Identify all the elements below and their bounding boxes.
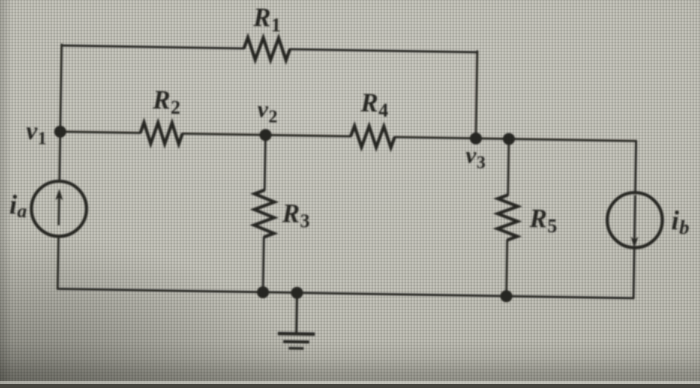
wire R5 down to bottom rail [505, 240, 508, 296]
svg-text:v2: v2 [257, 97, 278, 126]
wire top rail left segment [62, 46, 244, 49]
junction dot R3 at bottom rail [257, 286, 269, 298]
junction dot ground tap at bottom rail [291, 287, 303, 299]
svg-text:ia: ia [9, 189, 28, 222]
wire right rail: middle rail down to source ib [634, 141, 637, 193]
svg-text:R4: R4 [359, 88, 388, 121]
current source ib (circle) [607, 192, 663, 248]
wire left rail: v1 down to source ia [58, 132, 61, 182]
node v1 junction dot [54, 126, 66, 138]
current source ib arrow (down) [633, 195, 636, 241]
svg-text:ib: ib [671, 205, 690, 239]
svg-text:v3: v3 [465, 143, 486, 172]
svg-text:R5: R5 [528, 204, 557, 237]
wire middle rail: v1 to R2 [60, 132, 140, 133]
resistor R1 [244, 37, 290, 60]
junction dot right of v3 (R5 branch) [503, 133, 515, 145]
resistor R3 [254, 190, 275, 237]
junction dot R5 at bottom rail [500, 290, 512, 302]
wire right rail: source ib down to bottom rail [632, 248, 635, 299]
wire node v3 rail down to R5 [507, 139, 510, 195]
wire middle rail: R2 to R4 through v2 [182, 134, 350, 137]
wire v2 down to R3 [264, 135, 267, 190]
wire bottom rail [58, 289, 634, 298]
ground [295, 293, 298, 334]
wire left rail: source ia down to bottom rail [57, 236, 60, 289]
wire right drop from top rail to node v3 [476, 51, 477, 138]
current source ia (circle) [31, 181, 87, 237]
wire R3 down to bottom rail [262, 237, 265, 292]
resistor R5 [497, 195, 518, 240]
node v3 junction dot [470, 132, 482, 144]
svg-text:R2: R2 [152, 86, 181, 119]
svg-text:R1: R1 [252, 3, 281, 36]
resistor R2 [140, 122, 182, 144]
svg-text:R3: R3 [281, 199, 310, 232]
wire left rail upper (top rail to node v1) [60, 45, 61, 133]
node v2 junction dot [259, 129, 271, 141]
wire top rail right segment [290, 49, 477, 52]
current source ia arrow (up) [58, 195, 61, 226]
wire middle rail: R4 to right rail through v3 [395, 137, 636, 141]
svg-text:v1: v1 [26, 118, 47, 148]
resistor R4 [350, 126, 394, 148]
